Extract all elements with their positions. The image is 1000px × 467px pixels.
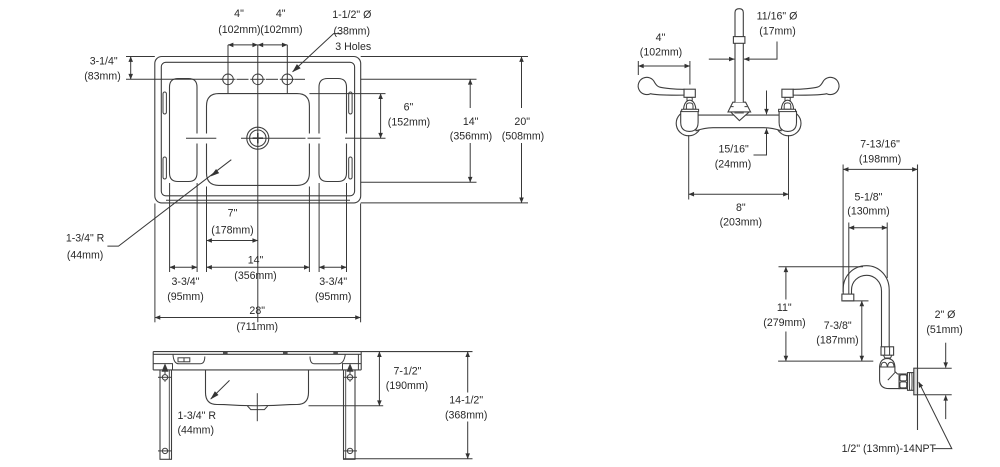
handle left adapter <box>684 89 695 97</box>
svg-text:1-3/4" R: 1-3/4" R <box>178 410 217 422</box>
dim 8 line <box>689 193 789 195</box>
svg-text:4": 4" <box>234 8 244 20</box>
faucet hole right <box>282 74 293 85</box>
sink left edge (front) <box>152 352 154 370</box>
dim 6 ext bottom <box>354 137 385 139</box>
dim 14 right ext top <box>361 78 477 80</box>
valve body and elbow <box>880 367 900 389</box>
svg-text:(83mm): (83mm) <box>84 71 121 83</box>
dim 3-1/4 vertical <box>130 57 132 80</box>
valve boot right <box>779 111 796 131</box>
dim 14 right ext bottom <box>361 181 477 183</box>
dim 15/16 lower arrow leader <box>754 129 767 155</box>
supply line right <box>788 135 790 200</box>
svg-text:(198mm): (198mm) <box>859 153 901 165</box>
svg-text:8": 8" <box>736 202 746 214</box>
dim 4 faucet ext left <box>637 61 639 75</box>
svg-text:(102mm): (102mm) <box>260 24 302 36</box>
right ledge dish (front) <box>310 354 345 364</box>
dim 20 right vertical <box>521 57 523 109</box>
handle right bonnet <box>781 100 793 109</box>
svg-text:4": 4" <box>276 8 286 20</box>
left bracket top bolt <box>162 365 168 382</box>
ext bowl left <box>206 187 208 273</box>
bowl (front view) <box>206 370 309 406</box>
sink rim lip line bottom <box>166 199 350 201</box>
left rim slot lower <box>163 157 166 179</box>
faucet body bar <box>696 115 781 131</box>
svg-text:(190mm): (190mm) <box>386 380 428 392</box>
svg-text:14": 14" <box>248 255 264 267</box>
svg-text:3-3/4": 3-3/4" <box>319 276 347 288</box>
svg-text:(95mm): (95mm) <box>315 291 352 303</box>
left bracket bottom bolt <box>162 448 167 453</box>
ext wing right-left <box>318 183 320 272</box>
body bar center V <box>731 112 750 121</box>
wall line <box>917 165 919 431</box>
spout base trapezoid <box>728 102 751 112</box>
dim 11/16 right arrow leader <box>744 42 777 60</box>
dim 11/16 left arrow <box>709 58 735 60</box>
ext wing right-right <box>346 183 348 272</box>
union coupling <box>899 374 907 389</box>
svg-text:(102mm): (102mm) <box>218 24 260 36</box>
svg-text:14-1/2": 14-1/2" <box>449 395 483 407</box>
bowl centerline (front) <box>256 393 258 421</box>
valve bonnet <box>880 359 895 368</box>
dim 15/16 upper arrow <box>766 91 768 115</box>
dim 6 ext top <box>309 93 385 95</box>
svg-text:(152mm): (152mm) <box>388 116 430 128</box>
ext sink corner left <box>154 204 156 323</box>
svg-text:(279mm): (279mm) <box>763 317 805 329</box>
left rim slot upper <box>163 92 166 114</box>
svg-text:4": 4" <box>656 32 666 44</box>
dim 7-1/2 vertical <box>378 352 380 406</box>
svg-text:(356mm): (356mm) <box>450 130 492 142</box>
dim 4"+4" line holes <box>228 44 258 46</box>
left ledge clip rect <box>178 358 190 362</box>
dim 7 line <box>207 240 258 242</box>
bracket bottom ext line <box>344 458 473 460</box>
escutcheon left circle <box>676 111 701 136</box>
dim 4 faucet ext right <box>689 61 691 85</box>
handle right neck <box>785 97 790 100</box>
svg-text:(187mm): (187mm) <box>816 335 858 347</box>
right bracket top bolt <box>347 365 353 382</box>
wall flange plate <box>914 368 918 395</box>
svg-text:7-3/8": 7-3/8" <box>824 320 852 332</box>
wall hex nut <box>908 373 914 391</box>
dim 14 right vertical <box>469 79 471 108</box>
spout collar <box>733 37 745 44</box>
svg-text:1-3/4" R: 1-3/4" R <box>66 233 105 245</box>
ext bowl right <box>308 187 310 273</box>
svg-text:1/2" (13mm)-14NPT: 1/2" (13mm)-14NPT <box>842 443 937 455</box>
svg-text:3-1/4": 3-1/4" <box>90 55 118 67</box>
svg-text:(711mm): (711mm) <box>236 321 278 333</box>
dim 14 bottom line <box>207 266 310 268</box>
leader 1-3/4 R top view <box>107 160 231 246</box>
dim 7-3/8 vertical <box>861 301 863 361</box>
right rim slot upper <box>349 92 352 114</box>
sink rim inner (top view) <box>161 62 354 196</box>
svg-text:(95mm): (95mm) <box>167 291 204 303</box>
dim 3-3/4 right line <box>319 266 346 268</box>
dim 3-3/4 left line <box>170 266 198 268</box>
left bracket flange <box>153 364 172 370</box>
bowl bottom tangent ext <box>309 405 384 407</box>
sink rim outer (top view) <box>155 57 361 203</box>
supply line left <box>688 135 690 200</box>
hole centerline dashes <box>126 78 223 80</box>
svg-text:20": 20" <box>514 116 530 128</box>
spout base tabs <box>731 106 747 108</box>
svg-text:(368mm): (368mm) <box>445 409 487 421</box>
rim bottom line (front) <box>153 369 361 371</box>
svg-text:(38mm): (38mm) <box>334 25 371 37</box>
gooseneck outer tube <box>843 266 889 347</box>
valve boot left <box>681 111 698 131</box>
svg-text:6": 6" <box>404 102 414 114</box>
svg-text:(44mm): (44mm) <box>178 425 215 437</box>
dim 2 dia ext top <box>918 367 952 369</box>
svg-text:11": 11" <box>777 302 792 314</box>
right bracket flange <box>343 364 362 370</box>
dim 4 faucet line <box>638 65 690 67</box>
horizontal centerline segments through sink <box>186 137 216 139</box>
dim 7-13/16 line <box>843 168 917 170</box>
handle left blade <box>638 77 684 95</box>
handle right blade <box>793 77 839 95</box>
sink right edge (front) <box>360 352 362 370</box>
handle left neck <box>687 97 692 100</box>
ext wing left-left <box>169 183 171 272</box>
svg-text:(508mm): (508mm) <box>502 130 544 142</box>
ext wing left-right <box>196 183 198 272</box>
rim tick 1 <box>223 352 228 355</box>
wall centerline ext <box>778 360 873 362</box>
center vertical centerline <box>257 45 259 322</box>
dim 11 vertical <box>785 267 787 300</box>
dim 2 dia ext bottom <box>918 394 952 396</box>
svg-text:28": 28" <box>249 305 265 317</box>
dim 2 dia lower arrow <box>945 395 947 419</box>
drain recess (front) <box>247 406 267 410</box>
dim 7-3/8 ext top <box>843 300 869 302</box>
hole cross ticks <box>221 78 236 80</box>
svg-text:3-3/4": 3-3/4" <box>172 276 200 288</box>
dim 28 line <box>155 317 361 319</box>
svg-text:(24mm): (24mm) <box>715 158 752 170</box>
left hole vertical <box>227 45 229 94</box>
svg-text:(51mm): (51mm) <box>926 324 963 336</box>
right bracket bottom bolt <box>347 448 352 453</box>
dim 3-1/4 ext top <box>126 56 155 58</box>
ext sink corner right <box>360 204 362 323</box>
svg-text:5-1/8": 5-1/8" <box>855 191 883 203</box>
riser coupling nut <box>881 347 894 355</box>
rim tick 2 <box>283 352 288 355</box>
valve neck <box>884 355 892 358</box>
faucet hole center <box>252 74 263 85</box>
left bracket channel <box>159 370 161 459</box>
gooseneck inner tube <box>852 275 882 347</box>
dim 2 dia upper arrow <box>945 343 947 368</box>
leader 1-3/4 R front <box>211 380 230 399</box>
svg-text:(178mm): (178mm) <box>211 224 253 236</box>
rim top second line <box>153 353 361 355</box>
svg-text:7": 7" <box>228 208 238 220</box>
handle right adapter <box>782 89 793 97</box>
spout pipe <box>735 9 743 103</box>
svg-text:1-1/2" Ø: 1-1/2" Ø <box>332 9 371 21</box>
leader 1/2-14NPT <box>919 382 952 449</box>
svg-text:(17mm): (17mm) <box>759 25 796 37</box>
leader 1-1/2 dia 3 holes <box>293 34 341 72</box>
svg-text:3 Holes: 3 Holes <box>335 41 371 53</box>
handle left bonnet <box>684 100 696 109</box>
svg-text:(203mm): (203mm) <box>720 216 762 228</box>
dim 5-1/8 line <box>849 227 887 229</box>
aerator <box>842 294 854 301</box>
dim 7-13/16 ext left <box>842 165 844 293</box>
svg-text:14": 14" <box>463 116 479 128</box>
left ledge dish (front) <box>173 354 205 364</box>
svg-text:7-13/16": 7-13/16" <box>860 139 900 151</box>
dim 14-1/2 vertical <box>467 352 469 393</box>
dim 20 right ext bottom <box>361 202 528 204</box>
right wing ledge <box>319 79 347 182</box>
bowl (top view) <box>207 94 310 186</box>
drain inner circle <box>250 130 266 146</box>
svg-text:7-1/2": 7-1/2" <box>394 365 422 377</box>
ELKAY band <box>734 111 743 113</box>
right bracket channel <box>343 370 345 459</box>
elbow shine slash <box>888 372 896 380</box>
dim 5-1/8 ext right <box>886 223 888 279</box>
svg-text:15/16": 15/16" <box>718 143 749 155</box>
svg-text:2" Ø: 2" Ø <box>935 309 956 321</box>
escutcheon right circle <box>776 111 801 136</box>
right rim slot lower <box>349 157 352 179</box>
counter top line (front view) <box>153 351 472 353</box>
svg-text:(356mm): (356mm) <box>234 270 276 282</box>
svg-text:(44mm): (44mm) <box>67 249 104 261</box>
dim 20 right ext top <box>361 56 528 58</box>
svg-text:(130mm): (130mm) <box>847 206 889 218</box>
rim tick 3 <box>333 352 338 355</box>
dim 11 ext top <box>779 266 864 268</box>
svg-text:(102mm): (102mm) <box>640 47 682 59</box>
svg-text:11/16" Ø: 11/16" Ø <box>757 11 798 23</box>
drain outer circle <box>247 127 269 149</box>
dim 6 vertical <box>380 94 382 139</box>
dim 5-1/8 ext left <box>848 223 850 294</box>
left wing ledge <box>170 79 198 182</box>
right hole vertical <box>286 45 288 94</box>
faucet hole left <box>223 74 234 85</box>
